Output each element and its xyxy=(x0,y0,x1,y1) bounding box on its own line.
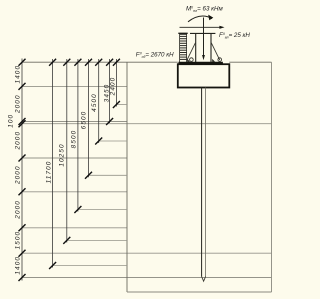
svg-text:2400: 2400 xyxy=(110,77,117,97)
extension at 11700 level xyxy=(53,265,127,267)
moment arc xyxy=(188,16,212,22)
soil layer line depth 1400 xyxy=(22,85,127,87)
dim line 2400 xyxy=(115,59,117,107)
dim line 8500 xyxy=(77,59,79,212)
svg-text:1400: 1400 xyxy=(15,256,22,275)
column left flange xyxy=(195,33,197,62)
svg-text:2000: 2000 xyxy=(15,131,22,151)
svg-text:FIIсд= 2670 кН: FIIсд= 2670 кН xyxy=(136,51,174,58)
svg-text:6500: 6500 xyxy=(80,111,87,130)
pile cap (rostverk) xyxy=(178,64,230,87)
soil layer line depth 7500 xyxy=(22,191,127,193)
chain tick 3400 xyxy=(19,118,26,125)
pile shaft left edge xyxy=(201,88,203,277)
ground surface line right part xyxy=(229,61,271,63)
soil layer line depth 11000 (extends full width) xyxy=(22,252,272,254)
wall cap line xyxy=(178,32,187,34)
soil layer line depth 9500 xyxy=(22,227,127,229)
svg-text:10250: 10250 xyxy=(59,143,66,166)
column top line xyxy=(190,32,215,34)
pile tip xyxy=(202,277,206,282)
surface tick at 4500 line xyxy=(95,59,102,66)
svg-text:2000: 2000 xyxy=(15,94,22,114)
ground surface line left part xyxy=(22,61,178,63)
chain tick 9500 xyxy=(19,224,26,231)
svg-text:11700: 11700 xyxy=(46,161,53,184)
svg-text:100: 100 xyxy=(7,114,14,128)
extension at 6500 level xyxy=(89,174,128,176)
dimension chain line left xyxy=(21,59,23,281)
soil layer line depth 12400 (extends full width) xyxy=(22,277,272,279)
extension at 8500 level xyxy=(78,209,127,211)
horizontal force arrowhead xyxy=(219,26,224,29)
column right flange xyxy=(210,33,212,62)
bottom tick 2400 xyxy=(113,101,120,108)
dim line 4500 xyxy=(98,59,100,143)
chain tick 1400 xyxy=(19,83,26,90)
horizontal force line xyxy=(180,26,221,28)
soil block right boundary xyxy=(271,62,273,292)
anchor bolt right xyxy=(218,58,222,62)
bottom tick 4500 xyxy=(95,138,102,145)
bottom tick 11700 xyxy=(49,262,56,269)
chain tick 11000 xyxy=(19,250,26,257)
soil layer line depth 3500 (extends full width) xyxy=(22,123,272,125)
svg-text:1400: 1400 xyxy=(15,65,22,84)
weld mark right xyxy=(212,59,215,62)
svg-text:2000: 2000 xyxy=(15,200,22,220)
anchor bolt left xyxy=(190,58,194,62)
pile shaft right edge xyxy=(205,88,207,277)
bottom tick 3450 xyxy=(106,118,113,125)
svg-text:1500: 1500 xyxy=(15,231,22,250)
left stiffener gusset xyxy=(187,43,196,60)
moment arc arrowhead xyxy=(208,15,213,21)
dim line 11700 xyxy=(52,59,54,268)
excavation left boundary xyxy=(126,62,128,292)
surface tick at 10250 line xyxy=(63,59,70,66)
tick marks xyxy=(19,59,120,281)
surface tick at 8500 line xyxy=(74,59,81,66)
surface tick at 6500 line xyxy=(85,59,92,66)
bottom tick 10250 xyxy=(63,237,70,244)
chain tick 5500 xyxy=(19,155,26,162)
chain tick surface xyxy=(19,59,26,66)
base plate xyxy=(178,62,223,64)
extension at 10250 level xyxy=(67,239,127,241)
surface tick at 2400 line xyxy=(113,59,120,66)
right stiffener gusset xyxy=(211,43,220,60)
dim line 3450 xyxy=(109,59,111,123)
weld mark left xyxy=(187,59,190,62)
extension at 2400 level xyxy=(116,104,127,106)
chain tick 3500 xyxy=(19,120,26,127)
surface tick at 11700 line xyxy=(49,59,56,66)
dim line 6500 xyxy=(88,59,90,177)
bottom tick 8500 xyxy=(74,206,81,213)
chain tick 7500 xyxy=(19,188,26,195)
soil layer line depth 5500 xyxy=(22,157,127,159)
chain tick 12400 xyxy=(19,274,26,281)
svg-text:8500: 8500 xyxy=(71,130,78,149)
bottom tick 6500 xyxy=(85,172,92,179)
soil block bottom boundary xyxy=(127,291,272,293)
extension at 4500 level xyxy=(99,140,127,142)
dim line 10250 xyxy=(66,59,68,243)
soil layer line depth 3400 xyxy=(22,121,127,123)
vertical force line xyxy=(203,18,205,57)
svg-text:4500: 4500 xyxy=(91,93,98,112)
surface tick at 3450 line xyxy=(106,59,113,66)
wall strip (brick hatch) xyxy=(180,34,187,62)
vertical force arrowhead xyxy=(202,55,205,60)
svg-text:2000: 2000 xyxy=(15,165,22,185)
